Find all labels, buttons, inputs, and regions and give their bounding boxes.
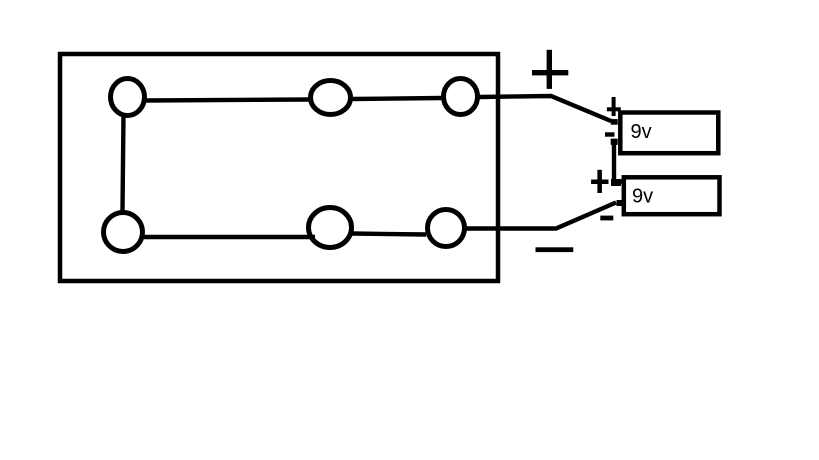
svg-text:9v: 9v	[632, 186, 653, 208]
svg-text:9v: 9v	[631, 121, 652, 143]
